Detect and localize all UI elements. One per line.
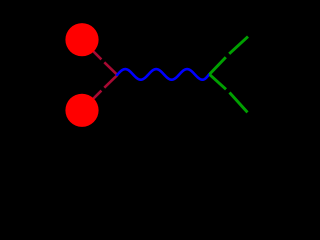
hadron blob H1 [65,23,98,56]
antiquark line q2 (dash 2) [104,75,117,88]
quark line q1 (dash 2) [104,62,117,75]
antiquark line q2 (dash 1) [82,91,101,110]
photon propagator (wavy line) [117,69,209,80]
lepton line l+ (dash 1) [210,57,226,74]
Drell-Yan process Feynman diagram [0,0,300,150]
hadron blob H2 [65,94,98,127]
lepton line l- (dash 1) [210,74,227,89]
lepton line l+ (dash 2) [229,37,248,54]
quark line q1 (dash 1) [82,40,101,59]
lepton line l- (dash 2) [230,93,248,113]
